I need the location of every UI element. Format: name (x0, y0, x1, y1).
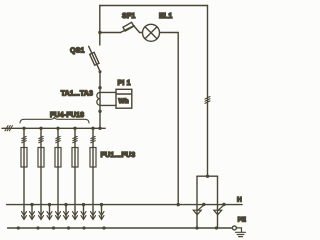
feeder column 2 (x=41) (38, 127, 44, 220)
wire to SF1 (100, 32, 121, 34)
N stub 1 (30, 203, 35, 219)
feeder column 5 (x=93) (90, 127, 96, 220)
node lamp return (177, 203, 180, 206)
wire right outer drop (207, 6, 209, 177)
node QS1 bottom (99, 70, 102, 73)
wire CT to meter top (100, 91, 116, 93)
svg-text:Wh: Wh (118, 98, 128, 105)
svg-text:TA1...TA3: TA1...TA3 (61, 91, 93, 98)
current transformer TA1...TA3 (97, 92, 100, 105)
wire top horizontal (100, 5, 208, 7)
wire arrester drop 1 (196, 176, 198, 228)
bus continuation slashes (5, 126, 12, 131)
node feed to bus (98, 127, 101, 130)
wire arrester drop 2 (217, 176, 219, 228)
arrester F2 (214, 203, 226, 215)
svg-text:FU4-FU18: FU4-FU18 (50, 112, 84, 119)
breaker SF1 (121, 22, 143, 32)
svg-text:H: H (237, 197, 242, 204)
N stub 5 (99, 203, 104, 219)
bus main (2, 127, 105, 129)
svg-text:SF1: SF1 (122, 13, 135, 20)
disconnector QS1 (89, 46, 100, 71)
N stub 4 (81, 203, 86, 219)
brace over fuse group (20, 117, 89, 123)
feeder column 4 (x=75) (72, 127, 78, 220)
feeder column 1 (x=24) (21, 127, 27, 220)
feeder column 3 (x=58) (55, 127, 61, 220)
svg-text:PI 1: PI 1 (118, 80, 131, 87)
wire QS1 to CT (99, 72, 101, 129)
bus PE (8, 227, 233, 229)
wire lamp to right drop (160, 33, 178, 205)
node right drop to arrester rail (206, 175, 209, 178)
wire CT to meter bottom (100, 104, 116, 106)
svg-text:PE: PE (238, 217, 246, 224)
ground terminal circle (232, 226, 236, 230)
wire left feed drop (99, 6, 101, 46)
meter PI1 box (116, 89, 132, 108)
N stub 2 (47, 203, 52, 219)
lamp EL1 (143, 24, 160, 41)
node CT bottom (98, 110, 101, 113)
node PE dots (17, 226, 218, 229)
break mark on right drop (205, 97, 210, 104)
ground (236, 228, 246, 237)
bus N (7, 204, 242, 206)
N stub 3 (64, 203, 69, 219)
svg-text:QS1: QS1 (70, 48, 85, 55)
svg-text:EL1: EL1 (159, 13, 172, 20)
wire arrester rail (197, 175, 218, 177)
node CT top (98, 86, 101, 89)
node feed junction (98, 31, 101, 34)
arrester F1 (193, 203, 205, 215)
svg-text:FU1...FU3: FU1...FU3 (101, 152, 136, 159)
